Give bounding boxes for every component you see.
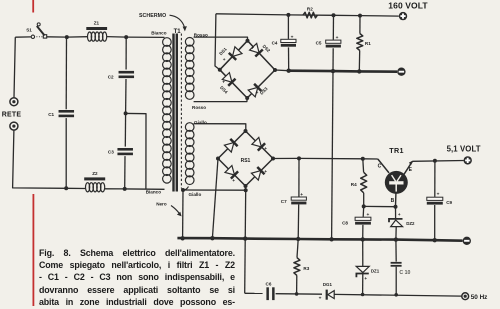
svg-text:160 VOLT: 160 VOLT (388, 1, 428, 11)
wire C7 lower lead (297, 205, 300, 240)
label T1 (174, 29, 182, 35)
node DZ1 bottom (361, 293, 365, 297)
switch S1 blade tip circle (37, 23, 40, 26)
node RS1 bottom tap (244, 188, 248, 192)
wire left vertical to RETE top terminal (14, 37, 15, 97)
wire RS1 left corner down to bus (212, 159, 218, 239)
switch S1 gap dots (36, 36, 42, 37)
diode DS1 (229, 47, 242, 60)
label Nero (156, 201, 167, 206)
diode RS1 bottom-left (225, 166, 238, 179)
polarity mark RS1-a (230, 138, 233, 143)
wire R1 lower lead (358, 51, 360, 72)
svg-text:DZ1: DZ1 (371, 268, 380, 273)
wire R3 lower lead (296, 275, 298, 294)
wire C5 lower lead (332, 48, 334, 71)
inductor Z2 core bar (84, 177, 105, 180)
wire C6 to DG1 (276, 293, 322, 296)
terminal RETE top (10, 98, 18, 106)
svg-text:+: + (398, 212, 401, 217)
label R2 (307, 7, 313, 12)
diode RS1 top-left (224, 139, 237, 152)
label DZ1 (371, 268, 380, 273)
node bus C7-R3 (296, 237, 300, 241)
wire C8 lower lead (362, 225, 364, 240)
wire from RETE bottom down to corner (13, 130, 67, 188)
wire Rosso top tap (194, 37, 248, 41)
wire C6 left lead (245, 292, 263, 294)
label DS4 (219, 85, 229, 95)
transformer T1 primary winding (163, 38, 172, 183)
transformer T1 core bars (172, 34, 178, 192)
node R1 bottom (357, 69, 361, 73)
label Giallo top (194, 120, 207, 125)
label C10 (399, 270, 410, 276)
node C5 bottom / bus link (331, 69, 335, 73)
node R3 bottom (295, 292, 299, 296)
wire C8 upper lead (362, 206, 365, 217)
wire node A to Z1 (67, 36, 87, 38)
wire node D down to C3 (124, 113, 126, 146)
transformer T1 secondary winding Giallo (185, 123, 194, 185)
label DG1 (323, 282, 333, 287)
label C3 (108, 150, 114, 155)
wire DZ1 lower lead (362, 274, 364, 295)
wire DZ2 lower lead (395, 227, 397, 240)
wire RS1 bottom corner stub (245, 186, 247, 190)
svg-text:RETE: RETE (2, 112, 22, 119)
label E (emitter) (409, 167, 413, 173)
wire C10 lower lead (395, 267, 397, 295)
label Rosso top (194, 32, 208, 37)
label 5,1 VOLT (447, 145, 481, 154)
polarity mark DS4 (222, 80, 225, 85)
wire DZ1 upper lead (362, 239, 364, 266)
capacitor C3 (117, 148, 133, 155)
svg-text:Z1: Z1 (94, 21, 100, 26)
svg-text:C4: C4 (272, 40, 278, 45)
node A junction (C1 branch) (65, 35, 69, 39)
wire R4 upper lead (362, 159, 365, 173)
svg-text:R3: R3 (303, 266, 309, 271)
wire base down to DZ2 (395, 207, 397, 218)
node bridge left (218, 68, 222, 72)
bus lower minus (177, 238, 462, 241)
wire Z2 to node C (105, 188, 125, 190)
label C7 (281, 199, 287, 204)
polarity mark DZ1 (364, 276, 367, 281)
wire R1 upper lead (359, 16, 361, 34)
label Bianco bottom (146, 190, 162, 195)
node bridge top (246, 39, 250, 43)
red column rule (top segment) (32, 0, 34, 13)
wire C10 upper lead (395, 240, 397, 262)
svg-text:TR1: TR1 (389, 146, 403, 155)
node bus C9 (433, 238, 437, 242)
node R4-C8 (362, 204, 366, 208)
wire S1 to node A (47, 36, 67, 38)
wire top positive rail (216, 14, 399, 16)
node bridge bottom (245, 96, 249, 100)
capacitor C1 (59, 110, 75, 117)
svg-text:Nero: Nero (156, 201, 167, 206)
svg-text:+: + (336, 36, 339, 41)
wire C9 upper lead (434, 161, 436, 197)
wire RS1 bottom node down through bus to C6 (245, 190, 246, 293)
label Giallo bottom (189, 192, 202, 197)
svg-text:S1: S1 (26, 28, 32, 33)
svg-text:+: + (319, 296, 322, 301)
terminal 5V plus (464, 156, 472, 164)
polarity mark DZ2 (398, 212, 401, 217)
wire C4 upper lead (287, 15, 289, 39)
label Z1 (94, 21, 100, 26)
svg-text:+: + (264, 170, 267, 175)
svg-text:+: + (222, 80, 225, 85)
wire bus link vertical (332, 71, 333, 239)
bridge RS1 frame wires (218, 131, 273, 186)
capacitor C7 (291, 197, 306, 204)
transformer T1 shield dashed line (180, 34, 182, 189)
capacitor C5 (326, 40, 341, 47)
transistor TR1 body (385, 171, 408, 194)
svg-text:SCHERMO: SCHERMO (139, 13, 166, 19)
node base-DZ2 (394, 205, 398, 209)
switch S1 left contact (31, 35, 34, 38)
bus upper minus (289, 71, 398, 72)
svg-text:C5: C5 (316, 41, 322, 46)
label C8 (342, 221, 348, 226)
node bus C6 riser (243, 236, 247, 240)
label Bianco top (151, 31, 167, 36)
node RS1 bottom (244, 184, 248, 188)
polarity mark DS1 (223, 58, 226, 63)
wire bridge right to C4 node (275, 69, 289, 72)
svg-text:C9: C9 (446, 200, 452, 205)
svg-text:Bianco: Bianco (151, 31, 167, 36)
node B junction (C2 branch) (124, 35, 128, 39)
zener DZ1 (356, 266, 369, 277)
label 50 Hz (471, 294, 488, 301)
svg-text:DZ2: DZ2 (406, 221, 415, 226)
inductor Z1 coil (88, 32, 107, 41)
resistor R1 (357, 34, 363, 51)
capacitor C8 (355, 217, 371, 224)
wire R3 upper lead (297, 239, 298, 258)
svg-text:+: + (251, 47, 254, 52)
svg-text:+: + (264, 147, 267, 152)
svg-text:Bianco: Bianco (146, 190, 162, 195)
node bus C8-DZ1 (361, 237, 365, 241)
wire Nero down to bus (182, 190, 184, 238)
diode DS2 (250, 43, 263, 56)
capacitor C9 (427, 197, 443, 204)
node RS1 right (271, 157, 275, 161)
polarity mark DG1 (319, 296, 322, 301)
wire mains top from corner to S1 (15, 36, 31, 38)
svg-text:+: + (230, 138, 233, 143)
label C9 (446, 200, 452, 205)
wire Rosso bottom tap (194, 98, 248, 101)
terminal 160V minus (397, 68, 405, 76)
capacitor C6 (266, 287, 274, 300)
capacitor C2 (119, 71, 135, 78)
emitter arrowhead (409, 161, 413, 166)
svg-text:C6: C6 (266, 281, 272, 286)
svg-text:C2: C2 (108, 74, 114, 79)
node RS1 top (244, 129, 248, 133)
label RS1 (241, 158, 251, 164)
svg-text:+: + (232, 179, 235, 184)
polarity mark C4 (291, 35, 294, 40)
svg-text:+: + (223, 58, 226, 63)
label R4 (351, 182, 357, 187)
wire node B to T1 primary top (126, 36, 164, 38)
label RETE (2, 112, 22, 119)
resistor R3 (294, 258, 300, 276)
wire node C to T1 primary bottom (125, 188, 165, 190)
svg-text:C8: C8 (342, 221, 348, 226)
node C5 top (332, 13, 336, 17)
resistor R2 (303, 12, 318, 18)
polarity mark RS1-d (264, 170, 267, 175)
switch S1 blade (37, 26, 45, 36)
polarity mark C8 (367, 213, 370, 218)
label S1 (26, 28, 32, 33)
polarity mark RS1-b (264, 147, 267, 152)
label DS1 (218, 46, 228, 56)
wire C5 upper lead (332, 15, 334, 39)
wire node A down to C1 (65, 37, 67, 109)
zener DZ2 (389, 219, 403, 227)
node Nero junction (181, 188, 185, 192)
svg-text:C7: C7 (281, 199, 287, 204)
svg-text:Rosso: Rosso (192, 105, 206, 110)
label C (collector) (378, 164, 382, 170)
red column rule (bottom segment) (33, 194, 35, 306)
svg-text:C 10: C 10 (399, 270, 410, 276)
svg-text:C: C (378, 164, 382, 170)
wire emitter to 5V terminal (412, 160, 463, 163)
wire RS1 right to collector bend (273, 157, 378, 160)
svg-text:+: + (291, 35, 294, 40)
wire Giallo bottom tap curve (183, 187, 188, 191)
wire bridge left corner to top rail (215, 14, 220, 70)
wire node B down to C2 (125, 37, 127, 69)
arrow Nero to wire (171, 206, 182, 217)
resistor R4 (361, 172, 367, 193)
label TR1 (389, 146, 403, 155)
label C5 (316, 41, 322, 46)
node C4 top (286, 13, 290, 17)
arrow SCHERMO to shield (170, 15, 187, 31)
svg-text:Z2: Z2 (92, 171, 98, 176)
transistor TR1 emitter lead (404, 161, 413, 174)
diode DS3 (248, 84, 261, 97)
diode RS1 top-right (252, 137, 265, 150)
node RS1 left (216, 157, 220, 161)
terminal 50Hz (462, 293, 469, 300)
label C6 (266, 281, 272, 286)
svg-text:C3: C3 (108, 150, 114, 155)
label DS3 (259, 86, 269, 96)
svg-text:Giallo: Giallo (194, 120, 207, 125)
polarity mark DS2 (251, 47, 254, 52)
node C4 bottom (287, 69, 291, 73)
svg-text:+: + (256, 91, 259, 96)
svg-text:DG1: DG1 (323, 282, 333, 287)
wire C3 down to node C (124, 156, 126, 189)
polarity mark RS1-c (232, 179, 235, 184)
svg-text:R4: R4 (351, 182, 357, 187)
label C1 (48, 112, 54, 117)
svg-text:+: + (364, 276, 367, 281)
node R1 top (358, 14, 362, 18)
node bus RS1-left (210, 236, 214, 240)
svg-text:+: + (367, 213, 370, 218)
node bus link (329, 237, 333, 241)
svg-text:RS1: RS1 (241, 158, 251, 164)
figure caption text (39, 248, 235, 309)
svg-text:+: + (300, 193, 303, 198)
terminal 160V plus (399, 12, 407, 20)
wire C9 lower lead (434, 205, 436, 240)
label C2 (108, 74, 114, 79)
wire C7 upper lead (298, 158, 300, 196)
label 160 VOLT (388, 1, 428, 11)
wire R4 lower lead (363, 193, 365, 207)
wire Giallo top tap (194, 124, 246, 131)
polarity mark C9 (437, 193, 440, 198)
svg-text:R2: R2 (307, 7, 313, 12)
wire bottom to Z2 (66, 187, 85, 189)
svg-text:50 Hz: 50 Hz (471, 294, 488, 301)
diode DG1 (327, 290, 335, 300)
node C7 top (297, 156, 301, 160)
diode RS1 bottom-right (251, 167, 264, 180)
node C junction (C3 bottom) (123, 187, 127, 191)
label Rosso bottom (192, 105, 206, 110)
svg-text:5,1 VOLT: 5,1 VOLT (447, 145, 481, 154)
polarity mark C5 (336, 36, 339, 41)
node bus DZ2-C10 (394, 237, 398, 241)
svg-text:Giallo: Giallo (189, 192, 202, 197)
svg-text:C1: C1 (48, 112, 54, 117)
transformer T1 secondary winding Rosso (185, 38, 194, 100)
inductor Z1 core bar (86, 27, 107, 30)
inductor Z2 coil (86, 183, 105, 192)
wire DG1 to 50Hz terminal (334, 294, 461, 296)
node bus Nero (180, 236, 184, 240)
svg-text:+: + (437, 193, 440, 198)
wire R4 node to base (364, 205, 396, 207)
diode DS4 (222, 73, 235, 86)
label R3 (303, 266, 309, 271)
terminal lower minus (463, 237, 471, 245)
node D junction (124, 111, 128, 115)
transistor TR1 base lead (395, 193, 397, 206)
capacitor C10 (391, 262, 402, 267)
label R1 (365, 41, 371, 46)
bridge frame wires (220, 41, 275, 98)
node C9 top (433, 159, 437, 163)
label DS2 (262, 44, 272, 54)
label B (base) (391, 198, 395, 204)
junction dot C1-bottom (64, 186, 68, 190)
wire C1 down to bottom wire (65, 118, 67, 188)
node C10 bottom (394, 293, 398, 297)
polarity mark DS3 (256, 91, 259, 96)
wire C4 lower lead (288, 47, 290, 70)
label C4 (272, 40, 278, 45)
label DZ2 (406, 221, 415, 226)
svg-text:R1: R1 (365, 41, 371, 46)
node R4 top (361, 157, 365, 161)
transistor TR1 collector lead (378, 159, 389, 173)
wire node D jog right and down to bottom wire (126, 113, 146, 189)
label SCHERMO (139, 13, 166, 19)
polarity mark C7 (300, 193, 303, 198)
svg-text:B: B (391, 198, 395, 204)
switch S1 pivot contact (43, 35, 46, 38)
wire C2 down to node D (125, 79, 127, 113)
terminal RETE bottom (10, 122, 18, 130)
wire Giallo bottom to RS1 bottom node (183, 189, 246, 191)
wire Z1 to node B (107, 36, 127, 39)
node bridge right (273, 68, 277, 72)
capacitor C4 (281, 39, 296, 46)
label Z2 (92, 171, 98, 176)
